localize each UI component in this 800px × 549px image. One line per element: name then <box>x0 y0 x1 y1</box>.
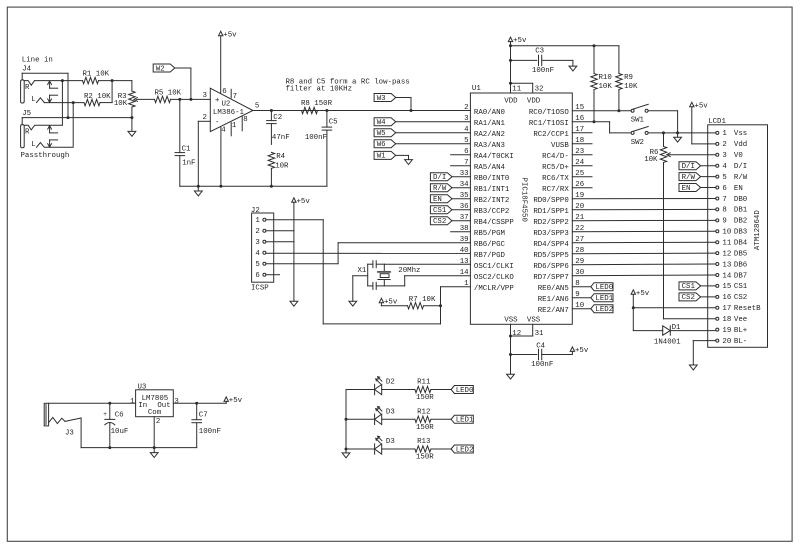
wire ICSP pin4 to PGD <box>266 252 471 254</box>
svg-text:4: 4 <box>255 250 260 258</box>
svg-text:+5v: +5v <box>694 102 708 110</box>
capacitor C2 <box>267 111 290 145</box>
wire ICSP pin2 <box>266 230 294 232</box>
resistor R4 <box>268 152 289 186</box>
svg-text:Vss: Vss <box>734 130 747 138</box>
svg-text:RC7/RX: RC7/RX <box>542 186 569 194</box>
svg-text:W4: W4 <box>377 119 386 127</box>
wire W6 to RA3 <box>395 143 470 145</box>
junction C4 tap <box>509 353 512 356</box>
svg-text:J3: J3 <box>65 429 74 437</box>
LCD module LCD1 ATM12864D <box>708 118 768 347</box>
wire LED row3 cathode to resistor <box>382 448 415 450</box>
junction SW ground node <box>676 131 679 134</box>
junction W3 tap <box>410 109 413 112</box>
wire W2 to input node <box>175 68 191 99</box>
svg-text:C3: C3 <box>535 48 544 56</box>
svg-text:4: 4 <box>221 126 226 134</box>
svg-text:5: 5 <box>722 174 726 182</box>
svg-text:+5v: +5v <box>223 31 237 39</box>
capacitor crystal load bottom <box>368 282 405 289</box>
svg-text:LED1: LED1 <box>595 295 613 303</box>
svg-text:RC5/D+: RC5/D+ <box>542 164 569 172</box>
svg-text:3: 3 <box>255 239 259 247</box>
wire RC0 to SW1 <box>572 110 631 112</box>
svg-text:VDD: VDD <box>504 97 518 105</box>
flag CS2 at LCD <box>679 293 716 302</box>
wire RC1 to SW2 <box>572 122 631 133</box>
junction com ground rail <box>153 446 156 449</box>
svg-text:W1: W1 <box>377 153 386 161</box>
capacitor C6 polarized <box>103 403 128 447</box>
wire R6 bottom to LCD Vee <box>664 318 716 320</box>
connector J3 power jack <box>44 403 74 437</box>
svg-text:10: 10 <box>722 229 731 237</box>
svg-text:RD2/SPP2: RD2/SPP2 <box>533 219 568 227</box>
ground LED block <box>342 449 350 458</box>
connector J2 ICSP header <box>251 207 274 292</box>
svg-text:9: 9 <box>722 218 726 226</box>
svg-text:DB7: DB7 <box>734 272 747 280</box>
flag CS1 at U1 RB3 <box>430 206 470 215</box>
wire J3 tip to regulator <box>49 402 136 404</box>
svg-text:C4: C4 <box>536 342 545 350</box>
svg-text:CS2: CS2 <box>433 218 446 226</box>
ground below W1 <box>405 160 413 165</box>
svg-text:SW1: SW1 <box>631 117 645 125</box>
svg-text:RD1/SPP1: RD1/SPP1 <box>533 208 569 216</box>
svg-text:X1: X1 <box>358 267 367 275</box>
svg-text:R/W: R/W <box>734 174 748 182</box>
svg-text:1N4001: 1N4001 <box>654 338 681 346</box>
connector J4 stereo jack <box>21 66 58 105</box>
svg-text:12: 12 <box>512 330 521 338</box>
wire ground node to LCD Vss <box>678 132 716 134</box>
svg-text:SW2: SW2 <box>631 139 644 147</box>
svg-text:CS1: CS1 <box>433 207 447 215</box>
resistor R12 <box>415 409 434 432</box>
svg-text:RE0/AN5: RE0/AN5 <box>538 285 569 293</box>
svg-text:RA4/T0CKI: RA4/T0CKI <box>474 153 514 161</box>
power +5v R7 <box>379 298 407 306</box>
junction C6 top <box>108 402 111 405</box>
power +5v U1 VDD <box>508 37 527 83</box>
svg-text:LM386-1: LM386-1 <box>213 109 245 117</box>
svg-text:3: 3 <box>464 115 468 123</box>
wire op-amp pin4 to ground rail <box>220 127 222 186</box>
junction R7 MCLR ICSP node <box>439 304 442 307</box>
svg-text:Line in: Line in <box>22 57 53 65</box>
wire VSS to ground <box>510 336 512 374</box>
junction J4-R / J5-R <box>61 79 64 82</box>
svg-text:RC4/D-: RC4/D- <box>542 153 569 161</box>
svg-text:R5 10K: R5 10K <box>155 89 182 97</box>
wire J3 sleeve to ground rail <box>65 418 197 448</box>
svg-text:R13: R13 <box>417 438 430 446</box>
capacitor C5 <box>305 111 338 187</box>
resistor R5 <box>155 89 182 102</box>
svg-text:RD5/SPP5: RD5/SPP5 <box>533 252 568 260</box>
svg-text:Passthrough: Passthrough <box>21 152 70 160</box>
svg-text:R: R <box>25 84 30 92</box>
svg-text:R11: R11 <box>417 379 431 387</box>
wire R6 wiper to LCD V0 <box>667 154 716 156</box>
svg-text:-: - <box>215 119 219 127</box>
svg-text:RD4/SPP4: RD4/SPP4 <box>533 241 569 249</box>
svg-text:RD7/SPP7: RD7/SPP7 <box>533 274 568 282</box>
svg-text:D/I: D/I <box>682 163 695 171</box>
junction VDD bracket <box>509 82 512 85</box>
svg-text:D/I: D/I <box>734 163 747 171</box>
svg-text:6: 6 <box>255 272 259 280</box>
wire R1 to R3 <box>99 80 132 82</box>
resistor R8 <box>301 100 333 114</box>
wire SW2 out to ground node <box>648 132 678 134</box>
svg-text:RA3/AN3: RA3/AN3 <box>474 142 505 150</box>
svg-text:1: 1 <box>232 122 237 130</box>
svg-text:11: 11 <box>722 240 731 248</box>
svg-text:14: 14 <box>722 272 731 280</box>
svg-text:1: 1 <box>130 398 135 406</box>
svg-text:19: 19 <box>722 327 731 335</box>
wire LED row2 anode <box>346 418 375 420</box>
power +5v LCD Vdd <box>690 102 716 144</box>
svg-text:100nF: 100nF <box>531 361 553 369</box>
wire J4 sleeve to ground bus <box>22 73 68 117</box>
svg-text:J2: J2 <box>251 207 260 215</box>
svg-text:Vdd: Vdd <box>734 141 747 149</box>
svg-text:EN: EN <box>682 185 691 193</box>
wire SW1 out to ground node <box>648 111 678 133</box>
svg-text:5: 5 <box>255 261 259 269</box>
svg-text:8: 8 <box>243 116 247 124</box>
wire ICSP pin5 to PGC <box>266 243 471 264</box>
svg-text:RB6/PGC: RB6/PGC <box>474 241 506 249</box>
svg-text:31: 31 <box>535 330 544 338</box>
svg-text:+5v: +5v <box>513 37 527 45</box>
junction C3 tap <box>509 59 512 62</box>
svg-text:VSS: VSS <box>527 317 541 325</box>
svg-text:ATM12864D: ATM12864D <box>754 210 762 250</box>
flag W4 <box>374 118 396 127</box>
flag D/I at LCD <box>679 162 716 171</box>
junction J4/J5 ground <box>67 116 70 119</box>
wire OSC2 to crystal <box>405 276 471 286</box>
svg-text:R12: R12 <box>417 409 430 417</box>
svg-text:17: 17 <box>722 305 731 313</box>
junction ground rail R4 <box>270 185 273 188</box>
svg-text:150R: 150R <box>416 424 434 432</box>
svg-text:+: + <box>103 411 107 418</box>
svg-text:20Mhz: 20Mhz <box>398 267 420 275</box>
flag CS2 at U1 RB4 <box>430 217 470 226</box>
svg-text:2: 2 <box>202 114 206 122</box>
wire OSC1 to crystal <box>384 263 470 265</box>
ground symbol op-amp rail <box>194 186 202 196</box>
svg-text:7: 7 <box>233 93 237 101</box>
svg-text:RA2/AN2: RA2/AN2 <box>474 131 505 139</box>
svg-text:150R: 150R <box>416 394 434 402</box>
wire J4 R contact to R1 <box>35 80 83 82</box>
svg-text:W2: W2 <box>156 65 165 73</box>
svg-text:5: 5 <box>464 137 468 145</box>
svg-text:10K: 10K <box>114 100 128 108</box>
svg-text:DB6: DB6 <box>734 261 747 269</box>
wire op-amp output <box>253 110 471 112</box>
power +5v regulator output <box>224 397 243 405</box>
wire LED row3 anode <box>346 448 375 450</box>
svg-text:10K: 10K <box>599 83 613 91</box>
wire R5 to op-amp input <box>171 98 211 100</box>
svg-text:D3: D3 <box>386 438 395 446</box>
svg-text:RD3/SPP3: RD3/SPP3 <box>533 230 568 238</box>
flag D/I at U1 RB0 <box>430 173 470 182</box>
svg-text:LED1: LED1 <box>456 417 474 425</box>
pin stubs U1 unconnected left <box>451 155 471 166</box>
svg-text:RC6/TX: RC6/TX <box>542 175 569 183</box>
svg-text:DB0: DB0 <box>734 196 747 204</box>
svg-text:OSC1/CLKI: OSC1/CLKI <box>474 263 514 271</box>
resistor R13 <box>415 438 434 461</box>
svg-text:+5v: +5v <box>297 198 311 206</box>
capacitor C7 <box>192 403 221 447</box>
wire W4 to RA1 <box>395 121 470 123</box>
svg-text:RC0/T1OSO: RC0/T1OSO <box>529 109 569 117</box>
svg-text:16: 16 <box>722 294 731 302</box>
capacitor C3 <box>511 48 573 76</box>
junction C7 top <box>195 402 198 405</box>
wire J4 L to J5 L passthrough <box>72 103 74 147</box>
flag EN at U1 RB2 <box>430 195 470 204</box>
flag CS1 at LCD <box>679 282 716 291</box>
svg-text:150R: 150R <box>416 454 434 462</box>
junction +5v rail <box>509 44 512 47</box>
svg-text:W5: W5 <box>377 130 386 138</box>
svg-text:6: 6 <box>722 185 726 193</box>
svg-text:W3: W3 <box>377 95 386 103</box>
flag W1 <box>374 151 396 160</box>
resistor R7 <box>408 296 436 309</box>
svg-text:C7: C7 <box>199 412 208 420</box>
LED D3 row2 <box>375 407 395 425</box>
svg-text:C5: C5 <box>329 118 338 126</box>
svg-text:LED0: LED0 <box>595 284 613 292</box>
U1 VDD bracket pins 11 32 <box>511 83 544 93</box>
svg-text:+5v: +5v <box>636 290 650 298</box>
svg-text:10K: 10K <box>644 156 658 164</box>
svg-text:RD0/SPP0: RD0/SPP0 <box>533 197 568 205</box>
junction SW2 R6 tap <box>662 131 665 134</box>
svg-text:3: 3 <box>174 398 178 406</box>
flag W5 <box>374 129 396 138</box>
connector J5 stereo jack <box>21 110 74 149</box>
ground C3 <box>569 60 577 71</box>
svg-text:CS2: CS2 <box>682 294 695 302</box>
junction W2 tap <box>189 98 192 101</box>
svg-text:R7 10K: R7 10K <box>409 296 436 304</box>
svg-text:2: 2 <box>464 104 468 112</box>
svg-text:4: 4 <box>722 163 727 171</box>
junction C6 bottom <box>108 446 111 449</box>
wire crystal caps common <box>353 264 368 286</box>
svg-text:Vee: Vee <box>734 316 747 324</box>
diode D1 1N4001 <box>654 324 681 346</box>
capacitor crystal load top <box>368 261 385 268</box>
flag W2 <box>153 64 175 73</box>
switch SW1 <box>631 104 649 124</box>
ground power supply <box>150 448 158 458</box>
junction R10 bottom RC1 net <box>593 120 596 123</box>
svg-text:RC1/T1OSI: RC1/T1OSI <box>529 120 569 128</box>
wire ICSP pin3 to ground <box>266 231 294 302</box>
svg-text:+5v: +5v <box>575 347 589 355</box>
flag LED0 at LED block <box>431 386 474 395</box>
junction ground rail pin2 <box>197 185 200 188</box>
svg-text:ResetB: ResetB <box>734 305 761 313</box>
svg-text:RB7/PGD: RB7/PGD <box>474 252 506 260</box>
svg-text:U1: U1 <box>472 85 481 93</box>
svg-text:EN: EN <box>433 196 442 204</box>
svg-text:J4: J4 <box>22 66 31 74</box>
pin stubs U1 unconnected right <box>572 133 592 188</box>
label Line in <box>22 57 53 65</box>
svg-text:LED2: LED2 <box>456 446 474 454</box>
svg-text:DB5: DB5 <box>734 250 747 258</box>
svg-text:LED0: LED0 <box>456 387 474 395</box>
svg-text:3: 3 <box>722 152 726 160</box>
svg-text:CS2: CS2 <box>734 294 747 302</box>
junction C2 tap <box>270 109 273 112</box>
flag EN at LCD <box>679 184 716 193</box>
svg-text:+5v: +5v <box>229 397 243 405</box>
svg-text:LED2: LED2 <box>595 306 613 314</box>
svg-text:5: 5 <box>255 103 259 111</box>
LED D3 row3 <box>375 436 395 454</box>
svg-text:+: + <box>215 97 220 105</box>
svg-text:R8 150R: R8 150R <box>301 100 333 108</box>
wire W3 to RA0 net <box>395 98 411 111</box>
flag LED2 at U1 RE2 <box>572 305 613 314</box>
ground ICSP <box>290 301 298 306</box>
svg-text:D2: D2 <box>386 379 395 387</box>
ground below R3 <box>128 118 136 137</box>
flag W3 <box>374 94 396 103</box>
op-amp U2 LM386-1 <box>202 88 259 136</box>
pin stub ICSP pin6 <box>266 274 280 276</box>
junction R10 top <box>593 44 596 47</box>
resistor R9 <box>616 46 638 111</box>
svg-text:V0: V0 <box>734 152 743 160</box>
svg-text:D3: D3 <box>386 408 395 416</box>
svg-text:13: 13 <box>722 261 731 269</box>
svg-text:RB3/CCP2: RB3/CCP2 <box>474 208 509 216</box>
svg-text:/MCLR/VPP: /MCLR/VPP <box>474 285 514 293</box>
ground crystal <box>349 276 357 306</box>
svg-text:L: L <box>31 96 35 104</box>
label Passthrough <box>21 152 70 160</box>
svg-text:32: 32 <box>535 85 544 93</box>
svg-text:filter at 10KHz: filter at 10KHz <box>286 86 353 94</box>
svg-text:1nF: 1nF <box>182 159 195 167</box>
svg-text:18: 18 <box>722 316 731 324</box>
wire +5v to LCD ResetB <box>633 307 716 309</box>
flag LED1 at LED block <box>431 415 474 424</box>
svg-text:20: 20 <box>722 338 731 346</box>
voltage regulator U3 LM7805 <box>130 383 179 426</box>
junction C1 tap <box>178 98 181 101</box>
flag R/W at LCD <box>679 173 716 182</box>
wire regulator out to +5v <box>173 402 226 404</box>
svg-text:BL+: BL+ <box>734 327 748 335</box>
svg-text:C6: C6 <box>115 412 124 420</box>
power +5v C4 <box>570 347 589 355</box>
power +5v ICSP pin2 <box>292 198 311 231</box>
flag W6 <box>374 140 396 149</box>
junction R3 bottom / ground wire <box>130 116 133 119</box>
svg-text:4: 4 <box>464 126 469 134</box>
U1 VSS bracket pins 12 31 <box>511 324 545 338</box>
svg-text:RA0/AN0: RA0/AN0 <box>474 109 505 117</box>
junction LED row3 <box>345 448 348 451</box>
svg-text:10uF: 10uF <box>111 428 129 436</box>
svg-text:CS1: CS1 <box>682 283 696 291</box>
svg-text:OSC2/CLKO: OSC2/CLKO <box>474 274 514 282</box>
switch SW2 <box>631 127 649 147</box>
svg-text:W6: W6 <box>377 141 386 149</box>
ground SW1 SW2 <box>674 133 682 142</box>
svg-text:7: 7 <box>722 196 726 204</box>
svg-text:VDD: VDD <box>527 97 541 105</box>
wire +5v rail to R10 R9 <box>511 45 619 47</box>
wire ICSP pin1 to MCLR net <box>266 220 441 324</box>
svg-text:RD6/SPP6: RD6/SPP6 <box>533 263 568 271</box>
svg-text:6: 6 <box>222 88 226 96</box>
svg-text:VUSB: VUSB <box>551 142 569 150</box>
wire J5 sleeve to ground node <box>22 118 132 125</box>
flag R/W at U1 RB1 <box>430 184 470 193</box>
svg-text:J5: J5 <box>22 110 31 118</box>
svg-text:+5v: +5v <box>384 298 398 306</box>
wire LED row1 cathode to resistor <box>382 389 415 391</box>
resistor R11 <box>415 379 434 402</box>
junction R9 bottom RC0 net <box>617 109 620 112</box>
svg-text:100nF: 100nF <box>305 134 327 142</box>
potentiometer R3 <box>114 81 138 118</box>
wire J4 R to J5 R passthrough <box>61 81 63 125</box>
wire W5 to RA2 <box>395 132 470 134</box>
wire LED row2 cathode to resistor <box>382 418 415 420</box>
svg-text:Com: Com <box>148 409 162 417</box>
ground LCD backlight <box>689 365 697 370</box>
ground rail under op-amp <box>180 185 327 187</box>
svg-text:15: 15 <box>722 283 731 291</box>
junction J4-L / J5-L <box>72 101 75 104</box>
flag LED0 at U1 RE0 <box>572 283 613 292</box>
svg-text:CS1: CS1 <box>734 283 748 291</box>
wire +5v to D1 anode <box>633 330 662 332</box>
svg-text:RB1/INT1: RB1/INT1 <box>474 186 510 194</box>
pin stub U1 RB5 <box>451 231 471 233</box>
svg-text:10K: 10K <box>624 83 638 91</box>
power +5v op-amp pin6 <box>219 31 238 93</box>
svg-text:1: 1 <box>722 130 727 138</box>
svg-text:RC2/CCP1: RC2/CCP1 <box>533 131 569 139</box>
wire R3 wiper to R5 <box>137 98 155 100</box>
junction R1/R2 node <box>111 79 114 82</box>
wire LCD BL- to ground <box>693 341 716 365</box>
svg-text:10R: 10R <box>275 162 289 170</box>
svg-text:R4: R4 <box>276 153 285 161</box>
